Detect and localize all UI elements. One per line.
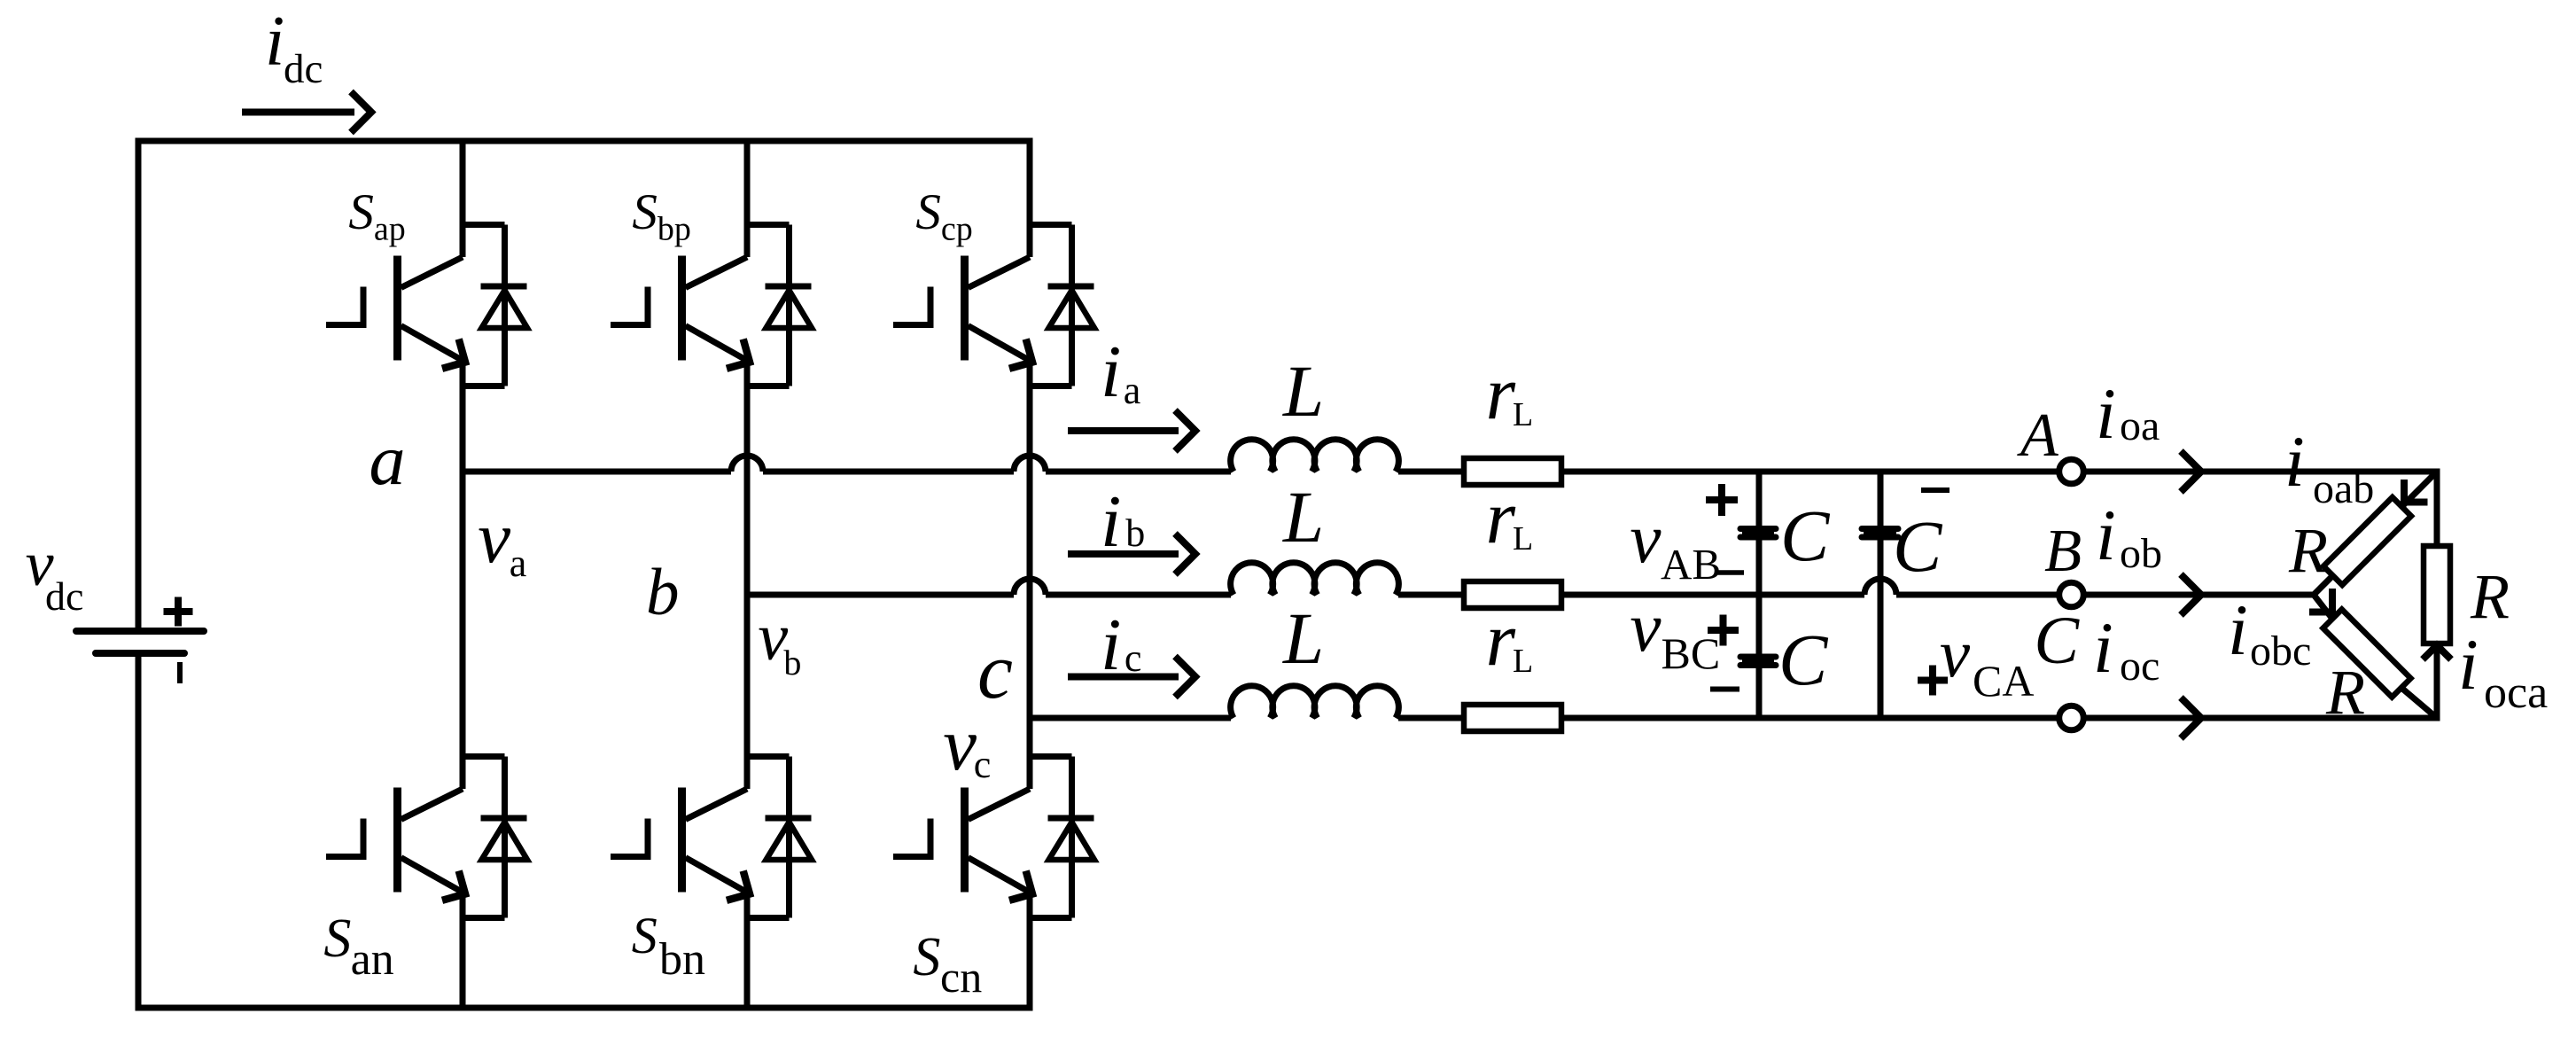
label plus v_AB [1706, 484, 1738, 516]
svg-text:S: S [348, 184, 374, 240]
transistor S_bn wire diode branch [786, 757, 792, 918]
transistor S_an diode triangle [482, 823, 528, 861]
current arrow i_dc [242, 109, 354, 116]
svg-text:ap: ap [374, 211, 406, 248]
svg-text:b: b [783, 643, 801, 682]
wire phase a segment 4 [1398, 469, 1464, 475]
svg-text:i: i [265, 3, 284, 81]
wire C_AB branch upper [1756, 472, 1763, 526]
label plus v_CA [1918, 666, 1948, 696]
svg-text:oab: oab [2313, 465, 2374, 512]
current arrow i_c [1068, 674, 1179, 681]
transistor S_bn IGBT emitter arrow [727, 871, 750, 901]
battery plus sign [164, 597, 193, 627]
wire phase-c column emitter to node c [1027, 360, 1033, 718]
transistor S_cn diode triangle [1049, 823, 1095, 861]
svg-text:an: an [351, 934, 394, 985]
wire top DC rail [136, 138, 1031, 144]
wire node c to Scn collector [1027, 718, 1033, 789]
transistor S_an IGBT gate lead [326, 819, 363, 857]
resistor R (A-C vertical) [2424, 546, 2450, 643]
svg-text:C: C [1780, 495, 1831, 576]
wire phase b segment 1 [747, 592, 1014, 598]
transistor S_ap diode triangle [482, 291, 528, 329]
label minus v_CA [1921, 487, 1950, 493]
svg-text:i: i [2096, 373, 2116, 454]
transistor S_an wire diode branch [502, 757, 508, 918]
svg-text:i: i [2284, 421, 2305, 502]
transistor S_an wire emitter-diode bottom bracket [463, 915, 505, 921]
wire phase-a column collector (Sap) [460, 141, 466, 257]
wire R_BC to C corner [2401, 688, 2437, 718]
transistor S_cn wire diode branch [1069, 757, 1075, 918]
svg-text:R: R [2288, 515, 2328, 586]
wire phase a segment 3 [1046, 469, 1231, 475]
wire load right vertical upper [2434, 469, 2440, 547]
capacitor C_CA [1862, 526, 1898, 532]
transistor S_bp wire emitter-diode bottom bracket [747, 383, 790, 389]
capacitor C_AB [1740, 526, 1776, 532]
svg-text:L: L [1282, 350, 1324, 432]
transistor S_ap IGBT emitter slant [401, 326, 468, 363]
battery minus sign [177, 662, 183, 683]
transistor S_bn IGBT body bar [678, 788, 686, 893]
wire phase-b column emitter to node b [744, 360, 751, 595]
transistor S_ap diode cathode bar [481, 284, 527, 290]
transistor S_bp diode triangle [767, 291, 813, 329]
transistor S_bn IGBT collector slant [686, 789, 748, 820]
svg-text:L: L [1513, 643, 1533, 680]
transistor S_cp IGBT gate lead [893, 287, 930, 325]
wire A corner to R_AB [2401, 472, 2437, 507]
wire phase c segment 4 to load corner [2086, 715, 2440, 721]
svg-text:L: L [1513, 520, 1533, 558]
resistor r_L phase c [1464, 705, 1561, 731]
svg-text:i: i [2228, 589, 2248, 670]
wire phase-b column collector (Sbp) [744, 141, 751, 257]
transistor S_cp wire emitter-diode bottom bracket [1030, 383, 1072, 389]
svg-text:L: L [1282, 476, 1324, 558]
current arrow i_a [1068, 427, 1179, 434]
wire C_AB to phase b junction [1756, 541, 1763, 654]
svg-text:S: S [323, 909, 351, 969]
svg-text:c: c [977, 628, 1013, 715]
label minus v_AB [1715, 570, 1744, 575]
transistor S_ap wire emitter-diode bottom bracket [463, 383, 505, 389]
transistor S_cp IGBT emitter slant [969, 326, 1035, 363]
transistor S_bn wire collector-diode top bracket [747, 753, 790, 760]
wire phase b segment 2 [1046, 592, 1231, 598]
node C terminal circle [2059, 706, 2084, 730]
battery Vdc positive plate [76, 628, 204, 635]
transistor S_bn diode cathode bar [766, 815, 812, 822]
wire phase-c column collector (Scp) [1027, 138, 1033, 258]
label minus v_BC [1710, 687, 1739, 692]
wire C_CA branch upper [1878, 472, 1884, 526]
hop phase a over b-column [731, 456, 763, 472]
wire phase b segment 4 [1561, 592, 1864, 598]
transistor S_an IGBT collector slant [401, 789, 463, 820]
current arrow i_oc [2181, 698, 2201, 738]
svg-text:dc: dc [45, 573, 83, 619]
svg-text:C: C [1893, 505, 1943, 587]
battery Vdc negative plate [96, 650, 184, 657]
transistor S_cp diode triangle [1049, 291, 1095, 329]
transistor S_an IGBT emitter slant [401, 858, 468, 895]
label plus v_BC [1708, 615, 1739, 646]
wire phase c segment 3 [1561, 715, 2057, 721]
wire R_AB to B junction [2314, 575, 2333, 595]
node B terminal circle [2059, 582, 2084, 607]
wire load right vertical lower [2434, 643, 2440, 721]
transistor S_bp wire collector-diode top bracket [747, 222, 790, 228]
svg-text:dc: dc [284, 46, 323, 92]
transistor S_cn wire collector-diode top bracket [1030, 753, 1072, 760]
transistor S_ap IGBT body bar [393, 256, 401, 361]
wire phase b segment 6 to load junction [2086, 592, 2314, 598]
svg-text:v: v [478, 496, 510, 578]
svg-text:S: S [632, 907, 658, 964]
wire node b to Sbn collector [744, 595, 751, 789]
svg-text:oa: oa [2120, 402, 2160, 449]
wire left DC bus lower [136, 653, 142, 1011]
transistor S_ap wire collector-diode top bracket [463, 222, 505, 228]
current arrow i_ob [2181, 574, 2201, 615]
transistor S_ap IGBT gate lead [326, 287, 363, 325]
transistor S_bp IGBT emitter slant [686, 326, 752, 363]
svg-text:R: R [2325, 657, 2365, 728]
svg-text:oca: oca [2484, 667, 2548, 718]
wire phase c segment 2 [1398, 715, 1464, 721]
inductor L phase c [1231, 686, 1399, 718]
wire phase b segment 5 [1896, 592, 2057, 598]
transistor S_bn IGBT gate lead [611, 819, 648, 857]
svg-text:S: S [915, 184, 941, 240]
wire left DC bus upper [136, 138, 142, 632]
transistor S_bn IGBT emitter slant [686, 858, 752, 895]
svg-text:i: i [2096, 495, 2116, 575]
wire bottom DC rail [136, 1005, 1031, 1011]
wire phase-a column emitter to node a [460, 360, 466, 472]
transistor S_bn wire emitter-diode bottom bracket [747, 915, 790, 921]
node A terminal circle [2059, 459, 2084, 484]
svg-text:r: r [1486, 350, 1516, 435]
wire phase a segment 2 [763, 469, 1014, 475]
svg-text:C: C [2034, 604, 2080, 678]
hop phase b over C_CA branch [1864, 579, 1896, 595]
svg-text:b: b [1125, 511, 1145, 555]
svg-text:B: B [2044, 517, 2082, 584]
transistor S_cp diode cathode bar [1048, 284, 1094, 290]
current arrow i_oca [2423, 645, 2451, 659]
transistor S_bp IGBT collector slant [686, 257, 748, 288]
svg-text:v: v [1630, 589, 1662, 667]
svg-text:b: b [646, 556, 680, 629]
svg-text:S: S [632, 184, 658, 240]
wire C_CA branch lower [1878, 541, 1884, 719]
transistor S_cp IGBT collector slant [969, 257, 1031, 288]
transistor S_bp wire diode branch [786, 225, 792, 386]
transistor S_an diode cathode bar [481, 815, 527, 822]
svg-text:i: i [2458, 624, 2479, 705]
svg-text:BC: BC [1662, 628, 1721, 678]
svg-text:L: L [1282, 597, 1324, 679]
svg-text:bp: bp [658, 211, 691, 248]
resistor r_L phase b [1464, 581, 1561, 608]
hop phase a over c-column [1014, 456, 1046, 472]
transistor S_bp diode cathode bar [766, 284, 812, 290]
transistor S_an IGBT emitter arrow [442, 871, 465, 901]
svg-text:v: v [943, 703, 977, 786]
svg-text:R: R [2470, 561, 2510, 632]
wire phase a segment 5 [1561, 469, 2057, 475]
transistor S_ap IGBT emitter arrow [442, 339, 465, 369]
transistor S_cn IGBT emitter slant [969, 858, 1035, 895]
current arrow i_oa [2181, 451, 2201, 492]
current arrow i_b [1068, 550, 1179, 558]
svg-text:C: C [1778, 619, 1829, 700]
svg-text:r: r [1486, 597, 1516, 682]
transistor S_bn diode triangle [767, 823, 813, 861]
transistor S_cp wire diode branch [1069, 225, 1075, 386]
transistor S_cp IGBT emitter arrow [1009, 339, 1032, 369]
svg-text:A: A [2017, 402, 2058, 470]
wire phase a segment 1 [463, 469, 731, 475]
resistor R (B-C diagonal) [2323, 610, 2411, 698]
svg-text:L: L [1513, 396, 1533, 433]
svg-text:a: a [370, 419, 406, 500]
wire C_BC branch lower [1756, 668, 1763, 718]
svg-text:a: a [510, 542, 527, 585]
svg-text:cn: cn [940, 952, 982, 1002]
transistor S_bp IGBT body bar [678, 256, 686, 361]
wire phase b segment 3 [1398, 592, 1464, 598]
svg-text:c: c [974, 743, 992, 786]
svg-text:oc: oc [2120, 643, 2160, 690]
current arrow i_obc [2309, 589, 2332, 612]
transistor S_an wire collector-diode top bracket [463, 753, 505, 760]
transistor S_cn diode cathode bar [1048, 815, 1094, 822]
transistor S_cn IGBT collector slant [969, 789, 1031, 820]
transistor S_ap IGBT collector slant [401, 257, 463, 288]
transistor S_cn IGBT body bar [961, 788, 969, 893]
svg-text:bn: bn [659, 934, 705, 985]
transistor S_cn IGBT emitter arrow [1009, 871, 1032, 901]
transistor S_bp IGBT gate lead [611, 287, 648, 325]
transistor S_cp wire collector-diode top bracket [1030, 222, 1072, 228]
wire phase c segment 1 [1030, 715, 1231, 721]
current arrow i_oab [2404, 480, 2428, 503]
svg-text:AB: AB [1661, 540, 1721, 589]
transistor S_an IGBT body bar [393, 788, 401, 893]
svg-text:ob: ob [2120, 530, 2162, 577]
capacitor C_BC [1740, 654, 1776, 660]
svg-text:v: v [1630, 501, 1662, 578]
svg-text:S: S [913, 927, 940, 987]
svg-text:r: r [1486, 474, 1516, 559]
transistor S_cp IGBT body bar [961, 256, 969, 361]
svg-text:CA: CA [1973, 656, 2034, 706]
wire Sbn emitter to bottom rail [744, 892, 751, 1008]
hop phase b over c-column [1014, 579, 1046, 595]
wire B junction to R_BC [2314, 595, 2332, 619]
transistor S_ap wire diode branch [502, 225, 508, 386]
wire phase a segment 6 to load corner [2086, 469, 2440, 475]
inductor L phase b [1231, 563, 1399, 595]
svg-text:i: i [2093, 607, 2113, 688]
svg-text:cp: cp [941, 211, 973, 248]
svg-text:v: v [1940, 615, 1971, 691]
inductor L phase a [1231, 440, 1399, 472]
wire Scn emitter to bottom rail [1027, 892, 1033, 1011]
svg-text:obc: obc [2250, 628, 2311, 675]
resistor r_L phase a [1464, 458, 1561, 485]
transistor S_bp IGBT emitter arrow [727, 339, 750, 369]
wire node a to San collector [460, 472, 466, 789]
resistor R (A-B diagonal) [2323, 497, 2411, 585]
transistor S_cn IGBT gate lead [893, 819, 930, 857]
svg-text:i: i [1101, 331, 1121, 413]
svg-text:a: a [1124, 369, 1141, 412]
transistor S_cn wire emitter-diode bottom bracket [1030, 915, 1072, 921]
wire San emitter to bottom rail [460, 892, 466, 1008]
